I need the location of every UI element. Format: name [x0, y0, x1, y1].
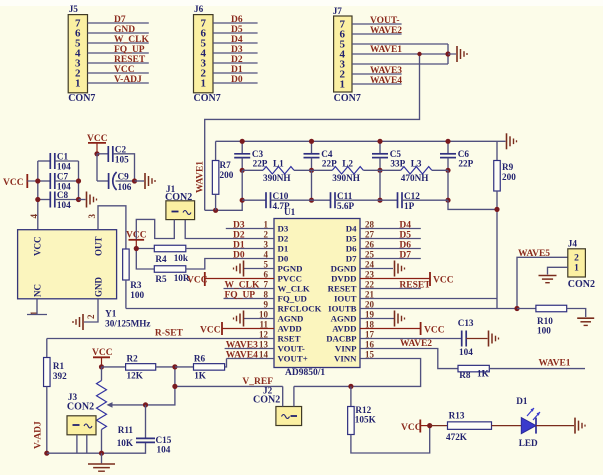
resistor R1	[44, 339, 68, 454]
svg-text:WAVE1: WAVE1	[539, 359, 571, 369]
svg-text:PVCC: PVCC	[278, 274, 302, 284]
svg-text:1: 1	[75, 78, 81, 90]
svg-text:AGND: AGND	[331, 314, 357, 324]
svg-text:D3: D3	[278, 224, 289, 234]
wire J5 pin 5	[88, 42, 149, 44]
net label WAVE3 pin13	[226, 341, 258, 351]
resistor R4	[136, 245, 274, 264]
svg-text:RFCLOCK: RFCLOCK	[278, 304, 322, 314]
svg-text:R10: R10	[537, 316, 553, 326]
pin number 10	[259, 310, 269, 320]
net label D1	[231, 65, 243, 75]
junction Lrow C5	[377, 168, 382, 173]
svg-text:VOUT-: VOUT-	[370, 16, 400, 26]
label Y1	[105, 309, 117, 319]
svg-text:R8: R8	[459, 370, 471, 380]
power VCC U1 pin23	[360, 272, 454, 286]
capacitor C1	[38, 152, 79, 172]
wire U1 pin2 D2 from J1	[185, 220, 274, 239]
wire J7 pin 4 WAVE1	[352, 53, 448, 55]
capacitor C11	[312, 191, 381, 211]
svg-text:104: 104	[459, 347, 473, 357]
pin number 1	[264, 220, 269, 230]
wire J5 pin 7	[88, 22, 149, 24]
connector J3	[67, 392, 96, 435]
svg-text:VCC: VCC	[33, 237, 43, 257]
wire J6 pin 6	[213, 32, 258, 34]
ground U1 pin5	[234, 261, 275, 277]
pin number 1 Y1	[29, 311, 39, 316]
svg-text:FQ_UP: FQ_UP	[225, 291, 256, 301]
svg-text:IOUT: IOUT	[334, 294, 357, 304]
resistor R13	[430, 411, 522, 443]
resistor R8	[458, 365, 585, 380]
ground at bottom rail	[88, 453, 115, 471]
wire J6 pin 1	[213, 82, 258, 84]
wire J5 pin 6	[88, 32, 149, 34]
svg-text:D1: D1	[278, 244, 289, 254]
wire U1 pin20 IOUTB	[360, 308, 517, 310]
net label WAVE4	[370, 76, 402, 86]
pin number 12	[259, 330, 269, 340]
svg-text:J7: J7	[333, 6, 343, 16]
svg-text:D0: D0	[278, 254, 289, 264]
ground at cap bank	[79, 192, 97, 208]
svg-text:J6: J6	[194, 4, 204, 14]
wire U1 pin14 WAVE4	[227, 358, 275, 360]
svg-text:D6: D6	[346, 244, 357, 254]
svg-text:NC: NC	[33, 284, 43, 297]
wire J7 pin 5	[352, 43, 448, 45]
junction Crow	[240, 198, 245, 203]
svg-text:RSET: RSET	[278, 334, 301, 344]
wire J6 pin 3	[213, 62, 258, 64]
wire bottom rail	[47, 442, 146, 453]
connector J4	[568, 239, 595, 291]
svg-text:C9: C9	[118, 171, 130, 181]
svg-text:R4: R4	[155, 254, 167, 264]
junction Crow	[309, 198, 314, 203]
svg-text:WAVE1: WAVE1	[196, 161, 206, 193]
svg-text:392: 392	[53, 371, 67, 381]
label 30/125MHz	[105, 319, 150, 329]
junction Lrow C6	[445, 168, 450, 173]
junction R2 R6	[172, 364, 177, 369]
wire U1 pin21 IOUT	[360, 298, 497, 300]
power VCC at R12/R13	[401, 420, 430, 434]
pin number 17	[365, 330, 375, 340]
junction rail C4	[309, 139, 314, 144]
net label WAVE4 pin14	[226, 351, 258, 361]
inductor L3	[380, 158, 448, 183]
svg-text:L2: L2	[342, 158, 353, 168]
net label VCC	[114, 65, 135, 75]
junction VCC R13	[427, 423, 432, 428]
pin number 28	[365, 220, 375, 230]
svg-text:R-SET: R-SET	[155, 329, 184, 339]
net label D2	[233, 231, 245, 241]
svg-text:D1: D1	[516, 396, 528, 406]
junction filter output	[494, 207, 499, 212]
wire J2 left stub	[282, 386, 284, 406]
pin number 24	[365, 260, 375, 270]
wire filter input row	[205, 200, 243, 210]
junction Lrow C4	[309, 168, 314, 173]
net label D2	[231, 55, 243, 65]
svg-text:200: 200	[502, 172, 516, 182]
svg-text:VCC: VCC	[200, 326, 221, 336]
capacitor C4	[304, 141, 338, 170]
svg-text:GND: GND	[114, 25, 135, 35]
svg-text:D5: D5	[231, 25, 243, 35]
svg-text:1: 1	[340, 79, 346, 91]
ground U1 pin24	[360, 261, 405, 277]
svg-text:CON7: CON7	[334, 93, 361, 104]
net label V_REF	[242, 377, 273, 387]
net label VOUT-	[370, 16, 400, 26]
svg-text:CON2: CON2	[67, 402, 94, 413]
svg-text:D0: D0	[231, 75, 243, 85]
svg-text:C11: C11	[337, 191, 353, 201]
pin number 11	[259, 320, 268, 330]
wire J7 pin 2 WAVE3	[352, 73, 402, 75]
svg-text:D6: D6	[231, 15, 243, 25]
pin number 5	[264, 260, 269, 270]
wire J7 pin 6 WAVE2	[352, 33, 402, 35]
wire J6 pin 7	[213, 22, 258, 24]
capacitor C12	[380, 191, 448, 211]
svg-text:1P: 1P	[404, 201, 415, 211]
power VCC left edge	[3, 174, 38, 188]
svg-text:10k: 10k	[174, 253, 189, 263]
ground at J4	[539, 276, 557, 283]
crystal oscillator Y1 body	[18, 230, 117, 299]
svg-text:D2: D2	[231, 55, 243, 65]
ground at J7	[448, 46, 467, 62]
ground at LED	[575, 418, 585, 434]
junction at J7 pin4 node	[445, 51, 450, 56]
svg-text:VOUT+: VOUT+	[278, 354, 308, 364]
svg-text:D3: D3	[233, 221, 245, 231]
junction V_REF	[172, 384, 177, 389]
resistor R3	[123, 249, 145, 309]
pin number 25	[365, 250, 375, 260]
svg-text:D4: D4	[231, 35, 243, 45]
wire J6 pin 5	[213, 42, 258, 44]
net label D7	[114, 15, 126, 25]
wire U1 pin8 FQ_UP	[224, 298, 275, 300]
svg-text:R13: R13	[449, 411, 465, 421]
net label W_CLK	[114, 35, 149, 45]
svg-text:105: 105	[115, 154, 129, 164]
net label R-SET	[155, 329, 184, 339]
svg-text:R9: R9	[502, 162, 514, 172]
net label W_CLK	[225, 281, 260, 291]
svg-text:RESET: RESET	[328, 284, 357, 294]
svg-text:WAVE4: WAVE4	[226, 351, 258, 361]
resistor R10	[517, 305, 586, 335]
junction Crow	[445, 198, 450, 203]
svg-text:CON7: CON7	[194, 93, 221, 104]
wire U1 pin16 WAVE2 to R8	[360, 349, 458, 369]
wire U1 pin13 WAVE3	[225, 348, 274, 350]
svg-text:L3: L3	[411, 158, 422, 168]
resistor R9	[494, 141, 516, 209]
svg-text:J4: J4	[568, 239, 578, 249]
svg-text:C6: C6	[458, 149, 470, 159]
net label D1	[233, 241, 245, 251]
svg-text:V-ADJ: V-ADJ	[114, 75, 142, 85]
svg-text:WAVE3: WAVE3	[226, 341, 258, 351]
capacitor C5	[372, 141, 406, 170]
wire U1 pin26 D6	[360, 248, 421, 250]
svg-text:470NH: 470NH	[401, 173, 429, 183]
pin number 6	[264, 270, 269, 280]
wire WAVE1 node down to filter input	[205, 54, 420, 210]
svg-text:R1: R1	[53, 361, 65, 371]
inductor L1	[242, 158, 311, 183]
net label V-ADJ	[114, 75, 142, 85]
wire Y1 pin2 to ground	[84, 299, 98, 322]
wire J1 pin1 to VCC	[136, 219, 174, 239]
potentiometer R11	[97, 367, 134, 453]
svg-text:W_CLK: W_CLK	[225, 281, 260, 291]
resistor R7	[212, 141, 233, 210]
svg-text:VOUT-: VOUT-	[278, 344, 305, 354]
net label WAVE5	[518, 249, 550, 259]
pin number 22	[365, 280, 375, 290]
svg-text:C12: C12	[404, 191, 420, 201]
junction rail C5	[377, 139, 382, 144]
net label RESET	[114, 55, 146, 65]
net label WAVE3	[370, 66, 402, 76]
wire U1 pin28 D4	[360, 228, 421, 230]
wire U1 pin15 VINN	[294, 359, 421, 387]
resistor R6	[175, 354, 227, 381]
inductor L2	[312, 158, 381, 183]
wire J7 pin 7 VOUT-	[352, 23, 402, 25]
svg-text:2: 2	[574, 254, 579, 264]
svg-text:WAVE3: WAVE3	[370, 66, 402, 76]
junction C8 right	[76, 197, 81, 202]
capacitor C2	[97, 144, 135, 181]
svg-text:J3: J3	[68, 392, 78, 402]
connector J7	[333, 6, 361, 104]
svg-text:D1: D1	[231, 65, 243, 75]
net label D6 right	[399, 241, 411, 251]
net label D4 right	[399, 221, 411, 231]
capacitor C9 electrolytic	[97, 154, 135, 192]
pin number 7	[264, 280, 269, 290]
wire J7 pin 3	[352, 63, 448, 65]
svg-text:CON2: CON2	[253, 395, 280, 406]
junction VCC R4	[134, 246, 139, 251]
power VCC at C2	[87, 134, 108, 154]
junction Lrow C3	[240, 168, 245, 173]
svg-text:VCC: VCC	[114, 65, 135, 75]
svg-text:CON2: CON2	[568, 279, 595, 290]
svg-text:D5: D5	[346, 234, 357, 244]
net label WAVE1	[370, 45, 402, 55]
svg-text:GND: GND	[94, 277, 104, 298]
svg-text:RESET: RESET	[114, 55, 146, 65]
ground at R10	[577, 318, 594, 325]
svg-text:1K: 1K	[194, 371, 207, 381]
svg-text:C5: C5	[390, 149, 402, 159]
net label FQ_UP	[114, 45, 145, 55]
junction Crow	[377, 198, 382, 203]
svg-text:D3: D3	[231, 45, 243, 55]
connector J6	[194, 4, 221, 104]
svg-text:C13: C13	[458, 318, 474, 328]
svg-text:V-ADJ: V-ADJ	[34, 421, 44, 449]
net label D7 right	[399, 251, 411, 261]
wire J5 pin 1	[88, 82, 149, 84]
pin number 13	[259, 340, 269, 350]
wire U1 pin1 D3	[226, 228, 274, 230]
capacitor C8	[38, 190, 79, 210]
svg-text:DGND: DGND	[331, 264, 357, 274]
svg-text:WAVE4: WAVE4	[370, 76, 402, 86]
svg-text:WAVE2: WAVE2	[400, 339, 432, 349]
net label D5 right	[399, 231, 411, 241]
pin number 20	[365, 300, 375, 310]
capacitor C15	[136, 405, 172, 455]
junction IOUTB WAVE5	[514, 306, 519, 311]
svg-text:C1: C1	[57, 152, 69, 162]
svg-text:200: 200	[220, 170, 234, 180]
junction R7 bottom	[213, 208, 218, 213]
wire J6 pin 4	[213, 52, 258, 54]
svg-text:L1: L1	[273, 158, 284, 168]
wire Y1 pin1 stub	[27, 299, 47, 315]
wire filter column	[311, 170, 313, 200]
power VCC U1 pin6	[187, 272, 274, 286]
svg-text:R7: R7	[220, 160, 232, 170]
power VCC U1 pin18	[360, 322, 445, 336]
svg-text:100: 100	[130, 290, 144, 300]
capacitor C10	[242, 191, 311, 211]
wire filter column	[447, 170, 449, 200]
svg-text:IOUTB: IOUTB	[328, 304, 356, 314]
wire U1 pin9 RFCLOCK from R3	[126, 308, 274, 310]
svg-text:C7: C7	[57, 172, 69, 182]
svg-text:DVDD: DVDD	[331, 274, 356, 284]
net label D0	[231, 75, 243, 85]
svg-text:WAVE2: WAVE2	[370, 26, 402, 36]
svg-text:D7: D7	[346, 254, 357, 264]
net label WAVE2 pin16	[400, 339, 432, 349]
wire J6 pin 2	[213, 72, 258, 74]
svg-text:VCC: VCC	[3, 178, 24, 188]
svg-text:D5: D5	[399, 231, 411, 241]
wire U1 pin7 W_CLK	[224, 288, 275, 290]
svg-text:AD9850/1: AD9850/1	[285, 368, 325, 378]
wire U1 pin22 RESET	[360, 288, 421, 290]
junction C7 left	[35, 178, 40, 183]
svg-text:104: 104	[57, 200, 71, 210]
pin number 21	[365, 290, 375, 300]
svg-text:472K: 472K	[446, 432, 468, 442]
svg-text:Y1: Y1	[105, 309, 117, 319]
svg-text:R6: R6	[194, 354, 206, 364]
svg-text:D7: D7	[114, 15, 126, 25]
wire Y1 pin3 OUT to R3	[98, 206, 126, 249]
wiper arrow R11	[107, 402, 146, 408]
pin number 14	[259, 350, 269, 360]
wire V_REF row	[146, 367, 283, 405]
wire U1 pin27 D5	[360, 238, 421, 240]
svg-text:AGND: AGND	[278, 314, 304, 324]
svg-text:OUT: OUT	[94, 236, 104, 256]
junction rail C3	[240, 139, 245, 144]
svg-text:3: 3	[87, 214, 97, 219]
svg-text:1K: 1K	[477, 369, 490, 379]
svg-text:VCC: VCC	[401, 423, 422, 433]
pin number 16	[365, 340, 375, 350]
resistor R12	[348, 386, 430, 453]
wire WAVE5	[517, 257, 568, 308]
svg-text:10K: 10K	[117, 438, 134, 448]
pin number 26	[365, 240, 375, 250]
wire U1 pin12 R-SET	[47, 338, 274, 340]
svg-text:VINN: VINN	[334, 354, 357, 364]
ground at C13	[489, 331, 499, 347]
junction C2/C9	[94, 151, 99, 156]
net label D0	[233, 251, 245, 261]
power VCC at R4/R5	[126, 231, 147, 249]
svg-text:VINP: VINP	[335, 344, 357, 354]
svg-text:DACBP: DACBP	[326, 334, 357, 344]
pin number 8	[264, 290, 269, 300]
pin number 19	[365, 310, 375, 320]
svg-text:FQ_UP: FQ_UP	[114, 45, 145, 55]
wire joining J7 pins 3-4-5	[447, 44, 449, 64]
svg-text:30/125MHz: 30/125MHz	[105, 319, 150, 329]
op-amp U1 AD9850/1 body	[274, 207, 360, 378]
ground at C9	[135, 173, 156, 189]
svg-text:D6: D6	[399, 241, 411, 251]
junction C7 right	[76, 178, 81, 183]
wire filter column	[241, 170, 243, 200]
svg-text:C15: C15	[156, 435, 172, 445]
pin number 4 Y1	[29, 214, 39, 219]
junction wiper C15	[143, 402, 148, 407]
connector J1	[165, 184, 195, 220]
svg-text:RESET: RESET	[399, 281, 431, 291]
svg-text:LED: LED	[519, 438, 538, 448]
svg-text:D4: D4	[346, 224, 357, 234]
svg-text:C4: C4	[321, 149, 333, 159]
junction C9 right	[132, 178, 137, 183]
wire cap bank left rail	[37, 161, 39, 230]
junction R12 top	[348, 384, 353, 389]
pin number 4	[264, 250, 269, 260]
svg-text:VCC: VCC	[187, 276, 208, 286]
net label D5	[231, 25, 243, 35]
junction C8 left	[35, 197, 40, 202]
svg-text:R3: R3	[130, 280, 142, 290]
svg-text:12K: 12K	[127, 371, 144, 381]
wire J4 pin1 to ground	[548, 267, 568, 274]
svg-text:390NH: 390NH	[332, 173, 360, 183]
svg-text:PGND: PGND	[278, 264, 303, 274]
svg-text:VCC: VCC	[433, 276, 454, 286]
svg-text:WAVE1: WAVE1	[370, 45, 402, 55]
ground at Y1 pin2	[73, 314, 83, 330]
wire J5 pin 2	[88, 72, 149, 74]
ground at filter rail right	[497, 133, 517, 149]
